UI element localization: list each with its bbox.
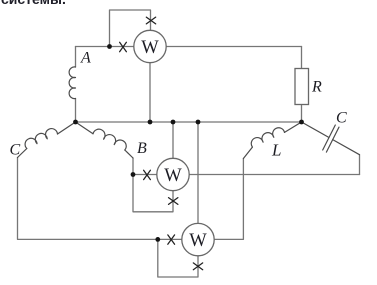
x-mark W2 voltage (169, 198, 178, 205)
svg-text:W: W (189, 231, 207, 251)
x-mark W3 current (168, 235, 175, 244)
wire W2 voltage-coil loop (133, 175, 173, 212)
x-mark W2 current (144, 170, 151, 179)
wire L exit diagonal (243, 147, 252, 158)
wire L to load junction (285, 122, 302, 132)
wire neutral bus (76, 121, 302, 123)
svg-text:W: W (164, 166, 182, 186)
svg-text:R: R (311, 79, 322, 96)
inductor A (69, 67, 75, 99)
node star point (73, 120, 78, 125)
svg-text:C: C (336, 110, 347, 127)
resistor branch wires (301, 47, 303, 123)
node W1 voltage tap (107, 44, 112, 49)
wire W3 voltage-coil loop (158, 239, 198, 277)
node W3 tap (155, 237, 160, 242)
wire W3 feed from bus (197, 122, 199, 223)
svg-text:L: L (271, 141, 281, 160)
wire capacitor branch lower (333, 140, 360, 155)
x-mark W3 voltage (193, 263, 202, 270)
svg-text:C: C (10, 142, 21, 159)
node load junction (299, 120, 304, 125)
inductor L (251, 128, 284, 147)
wire top horizontal A-phase line to resistor (76, 46, 302, 48)
node bus W3 (196, 120, 201, 125)
cropped caption text "системы." (1, 0, 66, 7)
wire coil C exit diagonal (18, 149, 27, 158)
node bus W1 (148, 120, 153, 125)
resistor R (295, 69, 309, 105)
wire coil A to star point (75, 99, 77, 123)
wire capacitor branch upper (302, 122, 330, 138)
x-mark W1 current (120, 42, 127, 51)
wire W3 right up toward L (214, 159, 243, 240)
wire star to coil B (76, 122, 94, 134)
wire W2 top to bus (172, 122, 174, 158)
wire left side down and bottom to W3 (18, 158, 199, 240)
wire W1 bottom to bus (149, 63, 151, 122)
x-mark W1 voltage (146, 17, 155, 24)
capacitor C plates (323, 125, 339, 152)
wire coil B corner down to W2 tap (132, 158, 134, 175)
svg-text:B: B (137, 140, 147, 157)
inductor B (93, 129, 126, 150)
wattmeter W2 (157, 158, 189, 190)
svg-text:A: A (80, 50, 91, 67)
wire capacitor corner vertical (359, 155, 361, 175)
node bus W2 (171, 120, 176, 125)
wire W1 voltage-coil loop (110, 10, 151, 47)
inductor C (25, 129, 57, 149)
wire phase A upper vertical (75, 47, 77, 68)
wire star to coil C (58, 122, 76, 134)
wire W2 current line (133, 174, 360, 176)
svg-text:W: W (141, 38, 159, 58)
wire coil B exit diagonal (125, 150, 133, 158)
wattmeter W3 (182, 223, 214, 255)
wattmeter W1 (134, 30, 166, 62)
node W2 tap (131, 172, 136, 177)
